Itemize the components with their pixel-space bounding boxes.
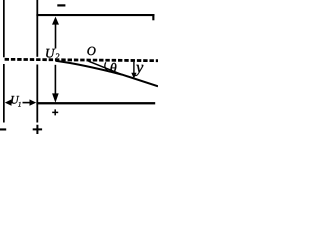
cathode electrode (left vertical, upper part) [3,0,5,57]
U1 dimension line right segment [23,102,33,104]
anode electrode (lower part) [36,65,38,123]
label O (deflection center) [87,47,95,55]
top plate right end tick [152,14,154,20]
U2 down arrowhead [52,93,59,102]
beam axis (dashed center line) [5,59,158,60]
y dimension arrowhead [131,73,136,79]
U2 up arrowhead [52,17,59,25]
plus polarity mark below bottom plate [52,109,58,115]
plus terminal below anode [33,125,42,134]
label U1 (accelerating voltage) [11,96,19,104]
bottom deflection plate (positive) [36,102,155,104]
y deflection dimension shaft [133,62,134,76]
label U1 subscript 1 [18,102,20,107]
label U2 (deflecting voltage) [46,49,55,58]
tangent construction line from O [89,61,123,75]
U2 down arrow shaft [55,65,57,95]
minus polarity mark above top plate [57,4,65,6]
U1 dimension line left segment [9,102,13,104]
label U2 subscript 2 [55,53,59,59]
top deflection plate (negative) [36,14,154,16]
U2 up arrow shaft [55,23,57,49]
U1 right arrowhead [30,99,37,105]
anode electrode (second vertical, upper part) [36,0,38,57]
minus terminal below cathode [0,128,6,130]
cathode electrode (lower part) [3,64,5,123]
label y (deflection on screen) [135,65,144,76]
angle arc for theta [105,62,110,72]
U1 left arrowhead [5,99,12,105]
label theta (deflection angle) [110,63,116,73]
electron trajectory (parabola in field, then straight line) [56,61,159,87]
